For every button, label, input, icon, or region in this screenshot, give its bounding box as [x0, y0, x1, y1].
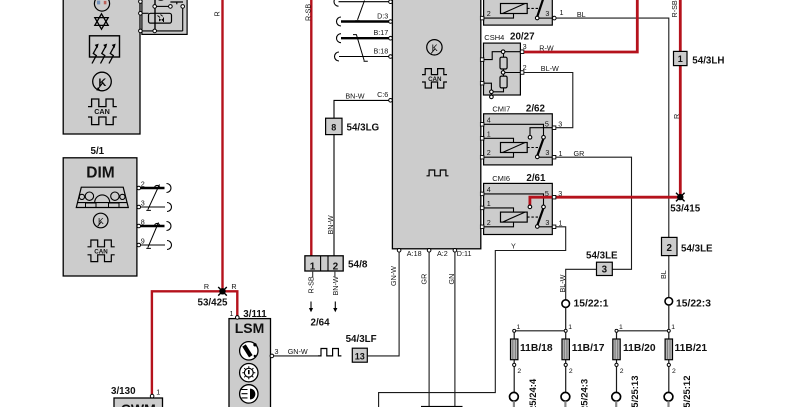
label R-SB (rotated, right)	[670, 0, 679, 17]
svg-text:2: 2	[672, 368, 676, 375]
relay coil (top relay)	[484, 4, 539, 19]
wire red branch 53/425 to CWM 3/130	[152, 291, 237, 394]
svg-text:2/61: 2/61	[526, 173, 546, 184]
svg-text:CAN: CAN	[94, 107, 110, 116]
svg-text:BN-W: BN-W	[326, 215, 335, 234]
label R-SB (rotated, below 54/8 pin 1)	[307, 276, 316, 293]
wire R-SB (red, from top into connector 54/8 pin 1)	[310, 0, 312, 256]
svg-text:5/1: 5/1	[91, 146, 105, 157]
svg-text:54/3LF: 54/3LF	[346, 334, 377, 345]
A/C snowflake icon	[95, 14, 108, 29]
svg-text:1: 1	[517, 324, 521, 331]
svg-text:C:6: C:6	[377, 90, 388, 99]
wire Y from CMI6 pin 1 down to lamp unit	[379, 227, 566, 407]
ground terminal 15/22:1	[562, 299, 609, 310]
svg-text:5: 5	[545, 120, 549, 129]
CAN bus symbol (module A)	[88, 99, 117, 125]
label R (rotated, below 54/3LH)	[672, 114, 681, 119]
wire CAN pair lower (thick, pin D:3)	[337, 17, 389, 26]
svg-text:1: 1	[560, 8, 564, 17]
front fog light icon	[240, 385, 258, 403]
twisted pair crossing (pins 2/3)	[146, 185, 159, 211]
wire DIM pin 8 (thick, twisted pair)	[141, 222, 171, 231]
light switch module LSM 3/111	[229, 309, 271, 407]
wire BN-W from 54/3LG down to 54/8 pin 2	[326, 135, 335, 256]
svg-text:R-W: R-W	[539, 43, 554, 52]
CEM bottom pins A:18 A:2 D:11	[397, 249, 471, 259]
svg-text:B:18: B:18	[374, 46, 389, 55]
svg-text:1: 1	[568, 324, 572, 331]
svg-text:CMI7: CMI7	[492, 104, 510, 113]
K-line diagnostic icon (CEM)	[427, 40, 442, 55]
svg-text:LSM: LSM	[235, 320, 265, 336]
CMI7 coil	[484, 138, 539, 157]
svg-text:3: 3	[545, 218, 549, 227]
twisted pair crossing (B:17/B:18)	[353, 35, 368, 62]
svg-text:1: 1	[678, 54, 683, 64]
label 2/64	[311, 318, 331, 329]
svg-text:2: 2	[517, 368, 521, 375]
svg-text:53/415: 53/415	[670, 204, 701, 215]
svg-text:BL-W: BL-W	[541, 64, 559, 73]
svg-text:2: 2	[666, 243, 672, 254]
K-line diagnostic icon (DIM)	[93, 213, 108, 228]
svg-text:CMI6: CMI6	[492, 174, 510, 183]
instrument lighting icon	[240, 364, 258, 382]
CSH4 pins	[480, 42, 526, 85]
splice 53/425	[218, 287, 227, 296]
instrument cluster icon	[76, 187, 128, 207]
LSM pin 3 and wire GN-W to connector 13	[270, 347, 318, 358]
CSH4 resistor 2	[500, 76, 507, 88]
relay CMI6 2/61	[484, 173, 553, 235]
instrument module DIM 5/1	[63, 146, 137, 276]
wire R (red, energized) CMI6 contact to splice 53/415	[528, 197, 681, 209]
svg-text:BL: BL	[577, 10, 586, 19]
wire R-SB (red, right, from top through 54/3LH to splice 53/415)	[679, 0, 682, 196]
wire DIM pin 3 (thin, twisted pair)	[141, 203, 172, 212]
svg-text:2/62: 2/62	[526, 103, 546, 114]
CEM left pins	[389, 0, 393, 102]
svg-text:D:11: D:11	[457, 249, 472, 258]
connector 13 54/3LF	[346, 334, 377, 362]
svg-text:3: 3	[141, 198, 145, 207]
svg-text:54/3LE: 54/3LE	[681, 244, 713, 255]
arrow down (54/8 pin 2 continues)	[333, 302, 337, 313]
relay CMI7 2/62	[484, 103, 553, 165]
svg-text:1: 1	[619, 324, 623, 331]
sensor box internal wiring	[140, 0, 183, 31]
wire R (red, from top to splice 53/425)	[221, 0, 223, 291]
PWM symbol on GN-W wire	[318, 349, 341, 356]
connector 2 54/3LE (on BL wire)	[662, 237, 714, 255]
label R (left of splice)	[204, 282, 209, 291]
twisted pair crossing (top pair)	[355, 1, 364, 21]
svg-text:BN-W: BN-W	[331, 276, 340, 295]
ground terminal 15/22:3	[665, 298, 711, 310]
svg-text:GR: GR	[574, 149, 585, 158]
svg-text:9: 9	[141, 236, 145, 245]
svg-text:3: 3	[523, 42, 527, 51]
label 53/425	[198, 298, 229, 309]
heated rear window icon	[90, 36, 120, 64]
svg-text:1: 1	[487, 199, 491, 208]
label R (rotated, top wire)	[213, 11, 222, 16]
relay contact (top relay)	[535, 0, 552, 20]
svg-text:2: 2	[487, 218, 491, 227]
LSM pin 1 (top)	[230, 309, 240, 319]
svg-text:5: 5	[545, 189, 549, 198]
lamp 11B/21	[664, 332, 707, 407]
wire GR from CEM pin A:2 down	[419, 252, 429, 407]
component at bottom edge (cut off)	[421, 406, 463, 407]
ground bus from 15/22:1 to lamps 11B/18 11B/17	[513, 307, 573, 332]
svg-text:2: 2	[620, 368, 624, 375]
svg-text:R-SB: R-SB	[670, 0, 679, 17]
svg-text:1: 1	[310, 261, 316, 272]
svg-text:2: 2	[333, 261, 339, 272]
svg-text:B:17: B:17	[374, 28, 389, 37]
CMI7 contact	[484, 124, 553, 158]
wire BL-W from connector 3 to ground 15/22:1	[558, 269, 597, 300]
svg-text:GN-W: GN-W	[288, 347, 308, 356]
light switch knob icon	[240, 342, 258, 360]
wire CAN pair B:18 (thin)	[335, 52, 390, 61]
svg-text:1: 1	[156, 388, 160, 397]
wire GN from CEM pin D:11 down	[447, 252, 456, 407]
svg-text:3: 3	[558, 189, 562, 198]
wire GR from CMI7 pin 1 to connector 54/3LE pin 3	[556, 149, 632, 269]
lamp 11B/18	[510, 332, 553, 407]
svg-text:Y: Y	[511, 241, 516, 250]
wire DIM pin 2 (thick, twisted pair)	[141, 184, 171, 193]
CMI7 pins and labels	[480, 115, 562, 159]
svg-text:BL: BL	[659, 270, 668, 279]
svg-text:1: 1	[559, 218, 563, 227]
svg-text:25/25:13: 25/25:13	[630, 375, 641, 407]
svg-text:25/24:3: 25/24:3	[579, 379, 590, 407]
svg-text:BL-W: BL-W	[558, 274, 567, 292]
wire BL from top relay to ground 15/22:3	[556, 10, 669, 299]
svg-text:R: R	[204, 282, 209, 291]
K-line diagnostic icon (module A)	[93, 72, 112, 91]
svg-text:15/22:1: 15/22:1	[574, 299, 609, 310]
light sensor relay box (top, cut off)	[142, 0, 187, 34]
wire DIM pin 9 (thin, twisted pair)	[141, 241, 172, 250]
svg-text:D:3: D:3	[377, 12, 388, 21]
svg-text:25/24:4: 25/24:4	[528, 378, 539, 407]
svg-text:2: 2	[569, 368, 573, 375]
wire GN-W from connector 13 up to CEM pin A:18	[368, 252, 400, 356]
svg-text:11B/18: 11B/18	[520, 343, 553, 354]
svg-text:GN-W: GN-W	[389, 266, 398, 286]
resistor pack CSH4 20/27	[484, 32, 536, 95]
svg-text:A:18: A:18	[407, 249, 422, 258]
svg-text:1: 1	[487, 129, 491, 138]
svg-text:3: 3	[275, 347, 279, 356]
climate temperature dial icon	[94, 0, 109, 11]
sensor box terminal pins	[139, 0, 185, 33]
central electronic module (CEM)	[392, 0, 480, 249]
svg-text:4: 4	[487, 185, 491, 194]
lamp 11B/17	[561, 332, 605, 407]
svg-text:BN-W: BN-W	[345, 92, 364, 101]
svg-text:4: 4	[487, 115, 491, 124]
svg-text:R: R	[213, 11, 222, 16]
pin labels D:3 B:17 B:18 C:6	[374, 12, 389, 99]
svg-text:3: 3	[545, 148, 549, 157]
connector 3 54/3LE (on GR wire)	[586, 250, 618, 275]
connector 8 54/3LG	[326, 118, 380, 134]
svg-text:3: 3	[602, 265, 608, 276]
DIM pins 2 3 8 9	[137, 179, 145, 247]
wire CAN pair B:17 (thick)	[337, 34, 389, 43]
svg-text:20/27: 20/27	[510, 32, 535, 43]
wire CAN pair upper (thin, to pin top)	[334, 0, 389, 6]
svg-text:CSH4: CSH4	[484, 33, 504, 42]
svg-text:25/25:12: 25/25:12	[682, 375, 693, 407]
CSH4 internal wiring	[484, 50, 521, 99]
svg-text:GN: GN	[447, 274, 456, 285]
svg-text:CWM: CWM	[121, 401, 156, 407]
label R (right of splice)	[231, 282, 236, 291]
twisted pair crossing (pins 8/9)	[146, 223, 158, 249]
svg-text:54/3LE: 54/3LE	[586, 250, 618, 261]
CSH4 resistor 1	[500, 57, 507, 69]
svg-text:1: 1	[559, 149, 563, 158]
svg-text:54/3LH: 54/3LH	[692, 56, 724, 67]
CMI6 contact	[484, 194, 553, 228]
connector 1 54/3LH	[674, 51, 725, 66]
svg-text:11B/17: 11B/17	[572, 343, 605, 354]
ground bus from 15/22:3 to lamps 11B/20 11B/21	[615, 305, 675, 332]
svg-text:R: R	[231, 282, 236, 291]
svg-text:GR: GR	[419, 274, 428, 285]
svg-text:R-SB: R-SB	[303, 4, 312, 21]
svg-text:53/425: 53/425	[198, 298, 229, 309]
svg-text:2: 2	[487, 9, 491, 18]
lamp 11B/20	[612, 332, 656, 407]
label BL (rotated, below connector 2)	[659, 270, 668, 279]
svg-text:3: 3	[558, 119, 562, 128]
svg-text:1: 1	[230, 309, 234, 318]
CWM pin 1	[150, 388, 160, 398]
wire BN-W from pin C:6 to connector 8 54/3LG	[334, 92, 389, 119]
svg-text:2: 2	[523, 63, 527, 72]
relay (top, cut off)	[484, 0, 553, 25]
svg-text:R-SB: R-SB	[307, 276, 316, 293]
svg-text:1: 1	[671, 324, 675, 331]
svg-text:DIM: DIM	[86, 165, 114, 182]
connector 54/8 (pins 1 and 2)	[305, 256, 368, 278]
climate control module (top left, cut off)	[63, 0, 140, 134]
svg-text:2: 2	[487, 148, 491, 157]
module CWM 3/130 (bottom left, cut off)	[111, 386, 163, 407]
svg-text:54/8: 54/8	[348, 259, 368, 270]
label R-SB (rotated)	[303, 4, 312, 21]
splice 53/415	[670, 193, 701, 215]
svg-text:11B/21: 11B/21	[675, 343, 708, 354]
CMI6 pins and labels	[480, 185, 562, 229]
svg-text:13: 13	[355, 351, 365, 361]
svg-text:2/64: 2/64	[311, 318, 331, 329]
CMI6 coil	[484, 208, 539, 227]
CAN bus symbol (CEM)	[422, 69, 447, 88]
svg-text:11B/20: 11B/20	[623, 343, 656, 354]
wire R-W (red) from CSH4 pin 3 up right	[524, 0, 637, 52]
PWM output symbol (CEM)	[427, 170, 449, 176]
photo sensor (LED) symbol	[149, 13, 172, 23]
svg-text:A:2: A:2	[437, 249, 448, 258]
svg-text:3/130: 3/130	[111, 386, 136, 397]
CAN bus symbol (DIM)	[88, 240, 115, 262]
label BN-W (rotated, below 54/8 pin 2)	[331, 276, 340, 295]
svg-text:8: 8	[331, 123, 336, 133]
wire BL-W from CSH4 pin 2 to CMI7 pin 3	[524, 64, 573, 128]
arrow down (54/8 pin 1 continues)	[309, 302, 313, 313]
top relay pins and labels	[480, 8, 563, 20]
svg-text:15/22:3: 15/22:3	[676, 299, 711, 310]
svg-text:R: R	[672, 114, 681, 119]
svg-text:3: 3	[545, 9, 549, 18]
svg-text:54/3LG: 54/3LG	[347, 122, 380, 133]
